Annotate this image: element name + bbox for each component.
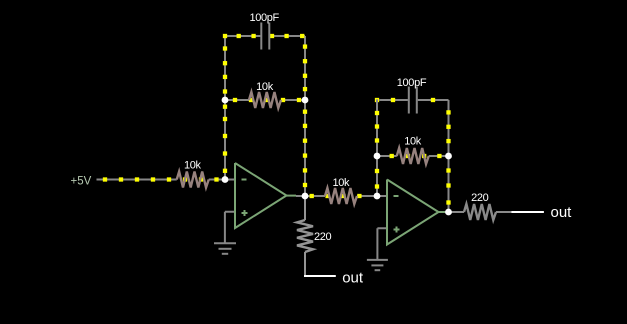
wire U1 noninverting input lead: [225, 211, 235, 213]
wire loop1 right vertical: [304, 36, 306, 196]
current dots on input wire: [103, 177, 219, 181]
node U2 inverting input junction: [374, 193, 381, 200]
current dots on loop1 top wire: [223, 34, 304, 38]
svg-text:10k: 10k: [404, 136, 422, 148]
wire U1 output lead: [296, 195, 305, 197]
ground G1: [214, 212, 236, 254]
svg-text:10k: 10k: [184, 160, 202, 172]
capacitor C2 100pF: [397, 77, 427, 113]
svg-text:10k: 10k: [332, 177, 350, 189]
ground G2: [367, 228, 388, 270]
resistor R5 220 output load: [297, 196, 332, 276]
capacitor C1 100pF: [249, 12, 279, 49]
node U1 inverting input junction: [222, 176, 229, 183]
resistor R6 220 output load: [449, 192, 512, 220]
node U1 output junction: [302, 193, 309, 200]
svg-text:+5V: +5V: [71, 176, 92, 188]
current dots on loop1 right vertical: [303, 44, 307, 187]
op-amp U2: [387, 180, 445, 245]
current dots on loop1 left vertical: [223, 46, 227, 173]
resistor R4 10k feedback: [397, 136, 429, 165]
svg-text:100pF: 100pF: [249, 12, 279, 24]
current dots on R4 row: [390, 154, 442, 158]
current dots on loop2 top wire: [391, 98, 435, 102]
wire loop1 left vertical: [224, 36, 226, 180]
wire loop1 top left segment: [225, 35, 260, 37]
svg-text:10k: 10k: [256, 81, 274, 93]
current dots on R3 row: [310, 194, 362, 198]
resistor R2 10k feedback: [249, 81, 281, 108]
node junction loop2 left: [374, 153, 381, 160]
current dot at loop2 top-left corner (under wires): [375, 98, 379, 102]
wire loop1 top right segment: [270, 35, 305, 37]
wire loop2 left vertical: [376, 99, 378, 196]
svg-text:220: 220: [314, 231, 332, 243]
current dots on loop2 left vertical: [375, 111, 379, 189]
wire R4 leads: [377, 155, 397, 157]
node junction loop1 left: [222, 97, 229, 104]
wire loop2 right vertical: [448, 100, 450, 212]
op-amp U1: [235, 163, 296, 228]
node out2 label: [511, 204, 572, 221]
wire U2 noninverting input lead: [377, 227, 387, 229]
wire R1 leads: [161, 179, 177, 181]
current dots on loop2 right vertical: [446, 110, 450, 204]
wire U2 inverting input lead: [377, 195, 387, 197]
node junction loop1 right: [302, 97, 309, 104]
wire loop2 top left segment: [379, 99, 408, 101]
svg-text:220: 220: [471, 192, 489, 204]
wire R3 leads: [305, 195, 325, 197]
wire loop2 top right segment: [418, 99, 449, 101]
resistor R3 10k coupling: [325, 177, 357, 204]
svg-text:100pF: 100pF: [397, 77, 427, 89]
wire from +5V to R1: [97, 179, 161, 181]
wire U1 inverting input lead: [225, 179, 235, 181]
node U2 output junction: [445, 209, 452, 216]
wire U2 output lead: [445, 211, 449, 213]
node junction loop2 right: [445, 153, 452, 160]
current dots on R2 row: [233, 98, 301, 102]
svg-text:out: out: [342, 269, 364, 286]
node out1 label: [304, 269, 364, 286]
svg-text:out: out: [551, 204, 573, 221]
resistor R1 10k input: [177, 160, 209, 188]
wire R2 leads: [225, 99, 249, 101]
